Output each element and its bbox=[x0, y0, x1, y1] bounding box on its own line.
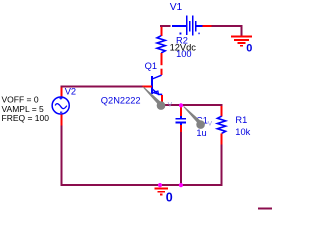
ground 0 bottom: bar 2 bbox=[154, 187, 168, 189]
battery V1 plate short 2 bbox=[195, 21, 197, 32]
battery V1 plate short 1 bbox=[189, 21, 191, 32]
battery V1 plus mark bbox=[180, 33, 182, 35]
source V2 bottom pin bbox=[60, 115, 62, 126]
voltage probe marker 2 tip circle bbox=[196, 120, 205, 129]
svg-text:1u: 1u bbox=[196, 128, 206, 138]
junction node at C1 bottom rail bbox=[179, 183, 183, 187]
collector line white gap artifact bbox=[160, 65, 164, 69]
battery V1 plate tall 1 bbox=[186, 16, 188, 35]
ground 0 right: tick bbox=[240, 45, 243, 47]
svg-text:0: 0 bbox=[166, 191, 173, 205]
source V2 top pin bbox=[60, 87, 62, 97]
svg-text:V1: V1 bbox=[170, 2, 183, 13]
svg-text:V2: V2 bbox=[65, 87, 76, 97]
ground 0 right: bar 3 bbox=[238, 42, 246, 44]
wire top-right horizontal (V1 right to ground corner) bbox=[212, 26, 242, 36]
resistor R2 body bbox=[157, 36, 165, 53]
capacitor C1 top plate bbox=[175, 118, 186, 120]
resistor R1 pin bottom bbox=[220, 134, 222, 145]
voltage probe marker 2 handle bbox=[183, 106, 201, 124]
voltage probe marker 1 handle bbox=[143, 87, 162, 106]
capacitor C1 top stem bbox=[180, 116, 182, 119]
wire emitter horizontal to R1 corner bbox=[161, 105, 221, 106]
capacitor C1 top pin bbox=[180, 106, 182, 116]
wire top-left horizontal (corner to V1 left lead) bbox=[160, 25, 171, 27]
junction node at bottom ground bbox=[158, 183, 162, 187]
svg-text:V: V bbox=[208, 121, 213, 128]
svg-text:FREQ = 100: FREQ = 100 bbox=[2, 113, 50, 123]
source V2 body circle bbox=[52, 97, 69, 114]
svg-text:100: 100 bbox=[176, 49, 192, 59]
ground 0 right: bar 1 bbox=[231, 36, 252, 38]
battery V1 left lead bbox=[172, 25, 186, 27]
source V2 plus mark bbox=[59, 97, 62, 100]
transistor Q1 base pin bbox=[143, 85, 153, 87]
capacitor C1 bottom stem bbox=[180, 123, 182, 126]
battery V1 right pin bbox=[202, 25, 211, 27]
resistor R1 body bbox=[217, 116, 225, 133]
transistor Q1 emitter tail bbox=[158, 93, 162, 95]
wire bottom rail bbox=[60, 184, 222, 186]
battery V1 plate tall 2 bbox=[192, 15, 194, 35]
svg-text:Q2N2222: Q2N2222 bbox=[101, 95, 141, 105]
battery V1 right lead bbox=[196, 25, 202, 27]
svg-text:10k: 10k bbox=[235, 127, 250, 137]
transistor Q1 base bar bbox=[151, 76, 153, 94]
transistor Q1 emitter pin bbox=[161, 95, 163, 105]
wire left vertical (V2 down to bottom rail) bbox=[60, 125, 62, 186]
transistor Q1 emitter line bbox=[153, 89, 158, 94]
resistor R2 pin top bbox=[161, 27, 163, 36]
resistor R2 pin bottom / Q1 collector pin bbox=[161, 53, 163, 75]
wire base horizontal (V2 to Q1 base) bbox=[60, 85, 142, 87]
capacitor C1 bottom pin bbox=[180, 125, 182, 132]
transistor Q1 collector line bbox=[152, 75, 161, 79]
ground 0 bottom: bar 3 bbox=[157, 191, 165, 193]
resistor R1 pin top bbox=[220, 106, 222, 116]
svg-text:0: 0 bbox=[246, 43, 252, 55]
voltage probe marker 1 tip circle bbox=[157, 101, 166, 110]
transistor Q1 emitter arrow bbox=[153, 91, 159, 94]
capacitor C1 bottom plate bbox=[175, 121, 186, 123]
wire stray segment bottom right bbox=[258, 208, 272, 210]
junction node at emitter/C1/R1 bbox=[179, 103, 183, 107]
ground 0 right: bar 2 bbox=[234, 39, 249, 41]
source V2 minus mark bbox=[60, 111, 62, 113]
svg-text:V: V bbox=[168, 102, 173, 109]
svg-text:Q1: Q1 bbox=[145, 61, 157, 71]
ground 0 bottom: tick bbox=[160, 194, 163, 196]
wire R1 lower vertical bbox=[220, 144, 222, 185]
svg-text:R1: R1 bbox=[235, 115, 247, 125]
source V2 sine wave bbox=[55, 104, 67, 109]
wire C1 lower vertical bbox=[180, 132, 182, 186]
battery V1 minus mark bbox=[198, 33, 199, 35]
